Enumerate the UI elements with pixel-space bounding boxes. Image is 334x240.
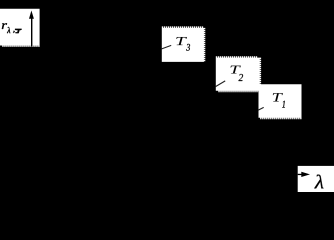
box T1 <box>259 84 302 119</box>
y-axis arrow <box>29 11 34 47</box>
leader tick T3 <box>161 45 171 49</box>
y-axis label box <box>0 9 40 47</box>
y-axis label text r_lambda,T <box>2 23 22 33</box>
box T3 <box>162 26 206 62</box>
leader tick T1 <box>258 107 264 110</box>
box T2 <box>216 56 261 92</box>
leader tick T2 <box>216 81 226 87</box>
x-axis arrow <box>298 172 310 177</box>
x-axis label box <box>298 166 334 192</box>
label T1 <box>273 93 283 101</box>
label T2 <box>230 66 240 74</box>
label T3 <box>176 37 187 45</box>
x-axis label text lambda <box>314 175 323 189</box>
